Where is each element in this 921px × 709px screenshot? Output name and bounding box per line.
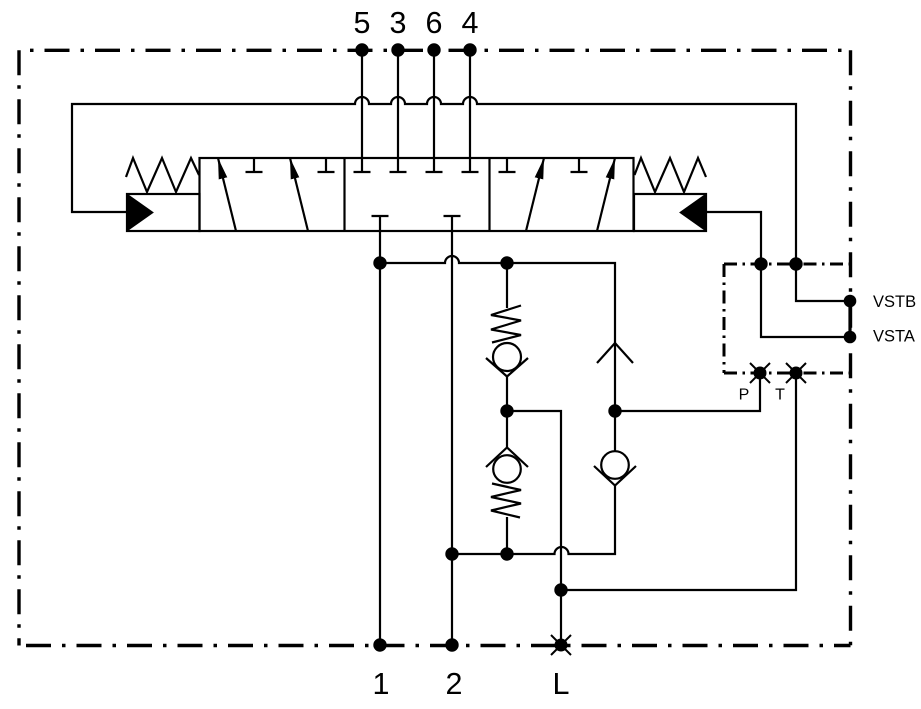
svg-text:5: 5 <box>354 6 371 40</box>
svg-text:VSTB: VSTB <box>873 293 916 311</box>
svg-text:VSTA: VSTA <box>873 328 915 346</box>
svg-text:1: 1 <box>373 667 390 701</box>
svg-text:T: T <box>775 387 785 404</box>
svg-text:P: P <box>739 387 750 404</box>
svg-text:6: 6 <box>426 6 443 40</box>
svg-text:4: 4 <box>462 6 479 40</box>
svg-text:3: 3 <box>390 6 407 40</box>
svg-text:2: 2 <box>446 667 463 701</box>
svg-text:L: L <box>553 667 570 701</box>
